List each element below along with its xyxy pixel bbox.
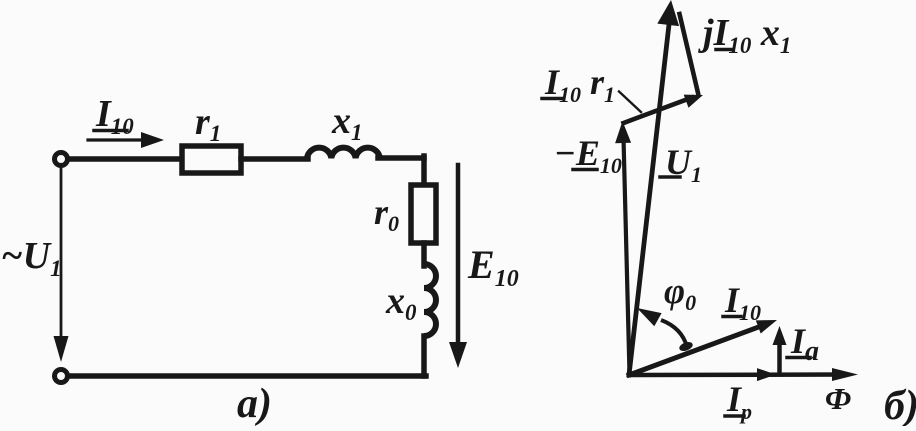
terminal top-left <box>55 153 68 166</box>
phasor -E10 <box>624 138 630 373</box>
wire x1 to corner <box>378 155 424 161</box>
phasor Ip arrowhead <box>757 368 776 381</box>
svg-text:б): б) <box>884 383 916 426</box>
voltage arrow U1 left branch <box>60 169 63 342</box>
phasor Ia <box>777 340 782 372</box>
phasor I10r1 <box>624 98 693 124</box>
inductor x1 <box>307 148 380 158</box>
svg-text:а): а) <box>237 381 272 426</box>
wire bottom horizontal <box>70 373 426 379</box>
wire top horizontal <box>70 156 184 162</box>
phasor U1 <box>629 20 670 375</box>
wire right vertical upper <box>421 156 427 187</box>
phasor jI10x1 <box>680 14 699 93</box>
axis flux Ф <box>629 372 844 377</box>
EMF arrow E10 <box>456 165 461 344</box>
leader line to I10r1 <box>619 92 641 113</box>
angle arc phi0 <box>661 320 687 347</box>
phasor I10 <box>629 325 764 375</box>
inductor x0 <box>424 264 436 336</box>
wire r1 to x1 <box>241 156 308 162</box>
resistor r0 <box>411 185 436 243</box>
resistor r1 <box>182 146 241 173</box>
svg-text:Ф: Ф <box>825 381 851 416</box>
terminal bottom-left <box>55 370 68 383</box>
current arrow I10 <box>88 138 148 141</box>
wire x0 to bottom corner <box>421 336 427 376</box>
wire r0 to x0 <box>421 243 427 266</box>
